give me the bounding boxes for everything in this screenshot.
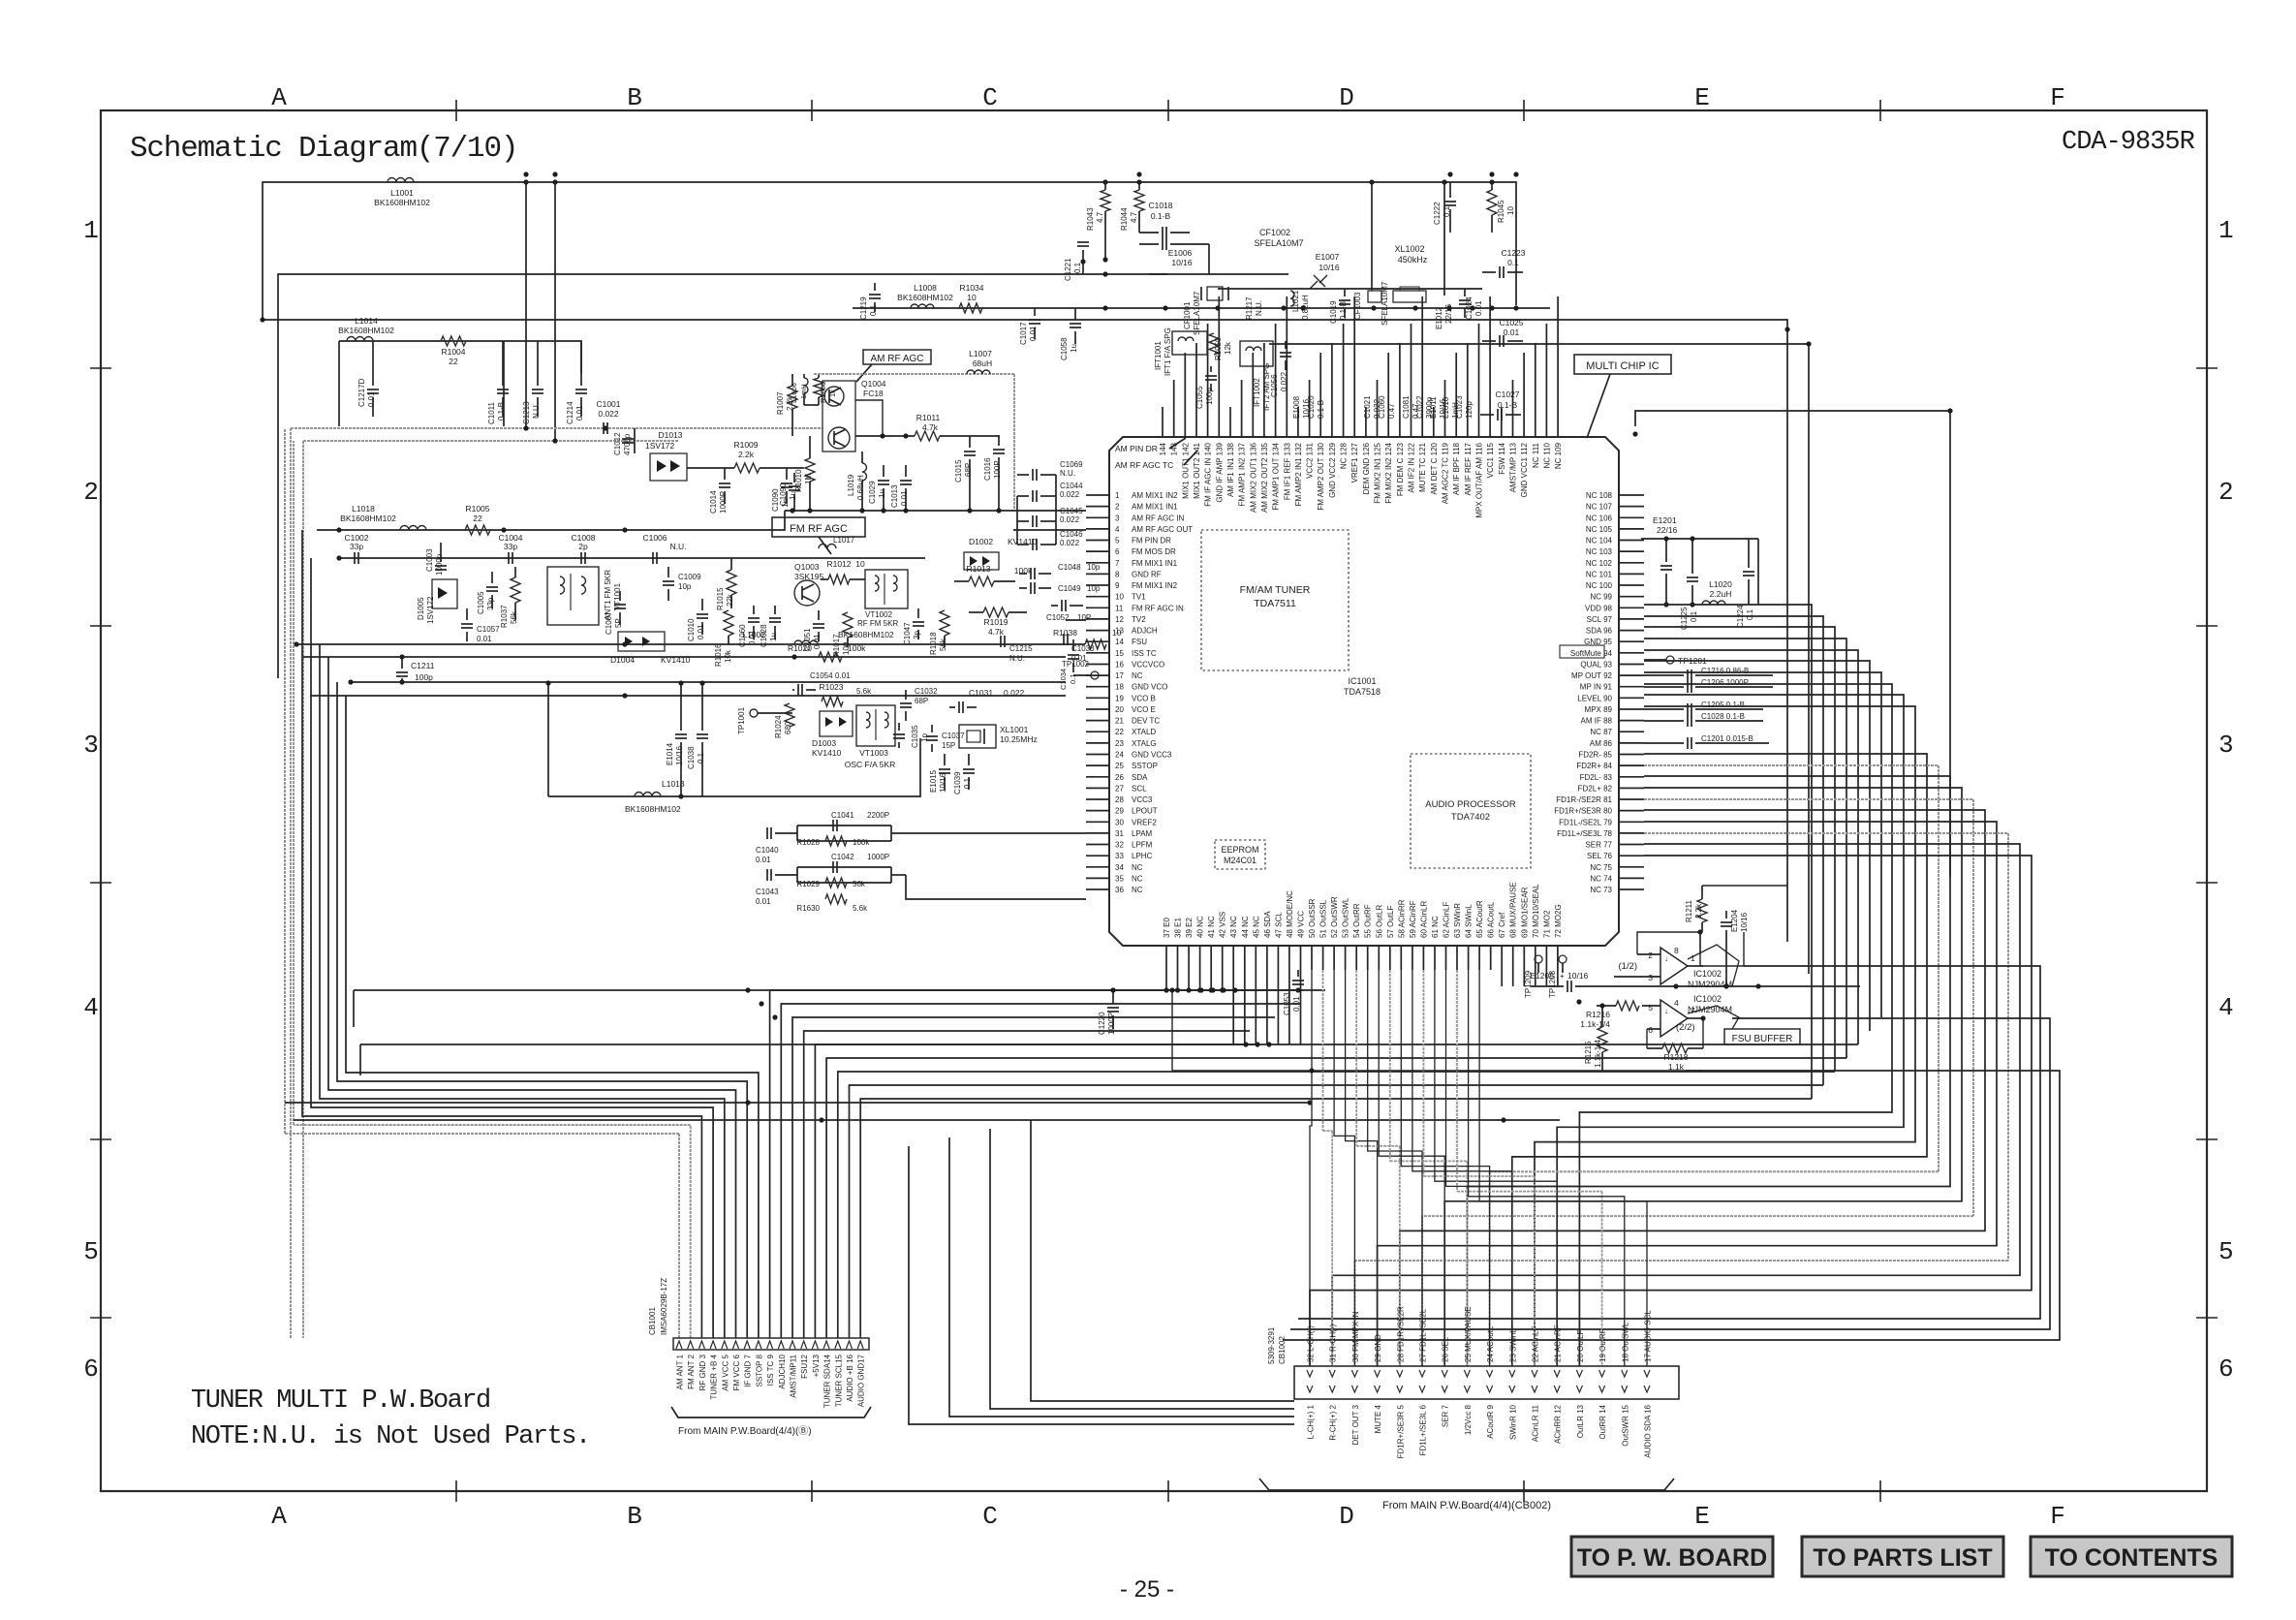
svg-text:C1040: C1040 <box>756 846 779 855</box>
svg-text:0.01: 0.01 <box>1292 996 1301 1012</box>
svg-text:FSW 114: FSW 114 <box>1498 442 1506 474</box>
capacitor C1221 <box>1082 250 1084 274</box>
svg-text:VCO E: VCO E <box>1132 705 1156 714</box>
svg-text:GND RF: GND RF <box>1132 570 1162 578</box>
capacitor C1031 <box>958 701 960 713</box>
svg-text:XL1001: XL1001 <box>1000 725 1029 734</box>
svg-text:N.U.: N.U. <box>1255 300 1263 316</box>
resistor R1015 <box>727 570 736 595</box>
svg-text:17: 17 <box>1115 671 1124 680</box>
svg-text:E: E <box>1694 1502 1710 1531</box>
svg-text:64 SWinL: 64 SWinL <box>1465 904 1474 938</box>
svg-text:0.01: 0.01 <box>367 391 376 407</box>
svg-text:32: 32 <box>1115 841 1124 850</box>
svg-text:LPAM: LPAM <box>1132 829 1153 838</box>
svg-text:CB1001: CB1001 <box>648 1307 657 1335</box>
svg-text:R1013: R1013 <box>966 564 990 574</box>
svg-text:FD1R+/SE3R 5: FD1R+/SE3R 5 <box>1396 1404 1405 1458</box>
svg-text:TO CONTENTS: TO CONTENTS <box>2045 1544 2218 1572</box>
svg-text:AM RF AGC: AM RF AGC <box>870 354 923 364</box>
svg-text:N.U.: N.U. <box>1009 654 1025 663</box>
capacitor C1029 <box>883 465 884 477</box>
svg-text:4: 4 <box>2218 993 2234 1022</box>
svg-text:From MAIN P.W.Board(4/4)(Ⓑ): From MAIN P.W.Board(4/4)(Ⓑ) <box>678 1425 812 1437</box>
svg-text:1u: 1u <box>769 633 778 641</box>
svg-text:QUAL 93: QUAL 93 <box>1580 661 1612 670</box>
svg-text:33p: 33p <box>350 542 363 551</box>
wire rail y298 <box>1218 288 1482 290</box>
wire rail 3b <box>1269 344 1809 974</box>
svg-text:C1221: C1221 <box>1064 258 1072 281</box>
svg-text:7: 7 <box>1115 559 1120 568</box>
svg-text:C1054: C1054 <box>810 671 833 680</box>
svg-text:FD1R+/SE3R 80: FD1R+/SE3R 80 <box>1554 807 1612 816</box>
inductor L1014 <box>347 337 373 342</box>
svg-text:L1021: L1021 <box>1291 290 1300 312</box>
svg-text:NC 100: NC 100 <box>1586 581 1613 590</box>
inductor L1013 <box>635 793 661 797</box>
svg-text:C1018: C1018 <box>1148 201 1172 210</box>
svg-text:AM PIN DR: AM PIN DR <box>1115 444 1158 453</box>
inductor L1019 <box>862 463 867 481</box>
svg-text:100p: 100p <box>415 672 433 682</box>
svg-text:0.1-B: 0.1-B <box>1498 400 1518 410</box>
svg-text:E1012: E1012 <box>1435 306 1443 329</box>
svg-text:E1014: E1014 <box>666 742 674 765</box>
svg-text:39 E2: 39 E2 <box>1185 918 1194 938</box>
svg-text:5309-3291: 5309-3291 <box>1267 1326 1276 1364</box>
AUDIO PROCESSOR TDA7402 block <box>1411 754 1531 868</box>
capacitor rails C1216 C1206 C1205 C1028 C1201 <box>1644 674 1684 676</box>
capacitor C1220 <box>1112 990 1114 1004</box>
svg-text:FM IF1 REF 133: FM IF1 REF 133 <box>1283 442 1291 500</box>
svg-text:MUTE 4: MUTE 4 <box>1374 1404 1382 1433</box>
svg-text:D1002: D1002 <box>969 537 993 546</box>
svg-text:L1017: L1017 <box>833 536 855 545</box>
svg-text:FM AMP2 OUT 130: FM AMP2 OUT 130 <box>1317 442 1325 510</box>
svg-text:R1029: R1029 <box>796 880 820 888</box>
svg-text:R1007: R1007 <box>776 391 785 415</box>
svg-text:NC 111: NC 111 <box>1532 442 1540 467</box>
svg-text:53 OutSWL: 53 OutSWL <box>1342 897 1350 938</box>
svg-text:68 MUX/PAUSE: 68 MUX/PAUSE <box>1509 882 1518 938</box>
capacitor C1013 <box>905 465 907 477</box>
svg-text:61 NC: 61 NC <box>1431 916 1440 938</box>
svg-text:R1011: R1011 <box>916 413 941 422</box>
wire rail 3 <box>263 320 1787 942</box>
svg-text:RF GND 3: RF GND 3 <box>698 1354 707 1390</box>
test points TP1209 TP1208 <box>1535 955 1542 963</box>
svg-text:C1219: C1219 <box>859 296 868 320</box>
svg-text:2p: 2p <box>578 542 588 551</box>
svg-text:30 FM MPX IN: 30 FM MPX IN <box>1351 1311 1360 1362</box>
svg-text:GND IF AMP 139: GND IF AMP 139 <box>1215 442 1224 502</box>
svg-text:0.022: 0.022 <box>1060 490 1080 499</box>
capacitor C1027 <box>1480 414 1494 416</box>
op2 wing <box>1688 1006 1739 1029</box>
svg-text:C1031: C1031 <box>969 688 993 698</box>
svg-text:3p: 3p <box>913 631 921 639</box>
svg-text:FM MOS DR: FM MOS DR <box>1132 547 1176 556</box>
svg-text:VREF2: VREF2 <box>1132 818 1157 826</box>
resistor R1019b rail stub <box>1066 619 1086 621</box>
svg-text:SCL 97: SCL 97 <box>1587 615 1613 624</box>
svg-text:FM MIX2 IN2 124: FM MIX2 IN2 124 <box>1384 442 1393 503</box>
capacitor C1222 <box>1449 182 1451 198</box>
svg-text:C1011: C1011 <box>487 401 496 424</box>
transformer VT1003 <box>845 705 895 769</box>
svg-text:MUTE TC 121: MUTE TC 121 <box>1418 442 1427 492</box>
svg-text:100k: 100k <box>848 643 866 653</box>
inductor L1017 <box>819 545 836 549</box>
svg-text:32 L-CH(-): 32 L-CH(-) <box>1307 1325 1316 1362</box>
svg-text:0.1: 0.1 <box>1443 205 1451 217</box>
svg-text:C1010: C1010 <box>687 618 696 641</box>
svg-text:10p: 10p <box>1087 584 1101 593</box>
resistor R1043 <box>1101 190 1110 211</box>
svg-text:144: 144 <box>1159 442 1167 455</box>
svg-text:CDA-9835R: CDA-9835R <box>2062 128 2195 157</box>
resistor R1013 <box>954 580 969 582</box>
svg-text:C1028 0.1-B: C1028 0.1-B <box>1701 712 1745 721</box>
svg-text:VREF1 127: VREF1 127 <box>1350 442 1359 483</box>
capacitor E1201 <box>1665 539 1667 562</box>
svg-text:680: 680 <box>784 721 792 734</box>
inductor L1007 <box>967 370 990 374</box>
svg-text:C1020: C1020 <box>1307 395 1316 419</box>
diode D1013 <box>650 430 687 481</box>
svg-text:ACinRR 12: ACinRR 12 <box>1554 1404 1563 1444</box>
svg-text:2.2uH: 2.2uH <box>1710 589 1732 599</box>
feedback network C1042 C1043 R1029 R1630 <box>756 853 1086 913</box>
svg-text:C1009: C1009 <box>678 573 701 581</box>
svg-text:NJM2904M: NJM2904M <box>1688 1005 1732 1014</box>
svg-text:AM IF REF 117: AM IF REF 117 <box>1464 442 1473 495</box>
svg-text:AUDIO PROCESSOR: AUDIO PROCESSOR <box>1425 799 1516 810</box>
svg-text:17 AUDIO SCL: 17 AUDIO SCL <box>1644 1310 1653 1362</box>
svg-text:TDA7511: TDA7511 <box>1254 598 1296 609</box>
wire rail y704 <box>351 681 1066 683</box>
svg-text:24: 24 <box>1115 751 1124 760</box>
capacitor C1004 <box>508 552 510 564</box>
svg-text:2200P: 2200P <box>867 811 889 820</box>
svg-text:TP1002: TP1002 <box>1062 660 1090 669</box>
svg-text:AM MIX2 OUT2 135: AM MIX2 OUT2 135 <box>1260 442 1269 513</box>
svg-text:FSU BUFFER: FSU BUFFER <box>1732 1034 1793 1044</box>
wire rail y665 <box>296 643 1066 645</box>
svg-text:NC 99: NC 99 <box>1590 593 1612 602</box>
wire cap rail <box>339 557 925 559</box>
svg-text:23: 23 <box>1115 739 1124 748</box>
svg-text:FM MIX1 IN1: FM MIX1 IN1 <box>1132 559 1178 568</box>
resistor R1011 <box>855 435 915 437</box>
svg-text:5: 5 <box>1115 537 1120 545</box>
svg-text:57 OutLF: 57 OutLF <box>1386 906 1395 938</box>
svg-text:NC 75: NC 75 <box>1590 863 1612 872</box>
capacitor C1213 <box>537 341 539 386</box>
svg-text:1: 1 <box>1691 953 1695 963</box>
junction dots <box>523 171 528 176</box>
svg-text:R1016: R1016 <box>714 643 723 667</box>
svg-text:D1004: D1004 <box>610 655 635 665</box>
svg-text:MP IN 91: MP IN 91 <box>1580 683 1613 692</box>
svg-text:R1218: R1218 <box>1663 1052 1688 1062</box>
svg-text:NC 74: NC 74 <box>1590 874 1612 883</box>
svg-text:C1032: C1032 <box>915 687 938 696</box>
svg-text:C1015: C1015 <box>954 459 963 483</box>
svg-text:15P: 15P <box>942 741 955 750</box>
svg-text:1000P: 1000P <box>867 853 889 861</box>
IC1001 bottom pins 37-72 <box>1163 882 1563 970</box>
svg-text:FSU: FSU <box>1132 638 1147 646</box>
svg-text:C1003: C1003 <box>425 548 434 572</box>
svg-text:R1044: R1044 <box>1120 207 1129 231</box>
svg-text:R-CH(+) 2: R-CH(+) 2 <box>1329 1404 1338 1440</box>
capacitor C1049 <box>1019 587 1027 589</box>
capacitor C1060 <box>753 606 755 614</box>
svg-text:C1056: C1056 <box>1270 374 1279 397</box>
capacitor C1017 <box>1034 308 1036 316</box>
wire screened AM line <box>291 427 822 429</box>
svg-text:10/16: 10/16 <box>1319 263 1340 272</box>
box label FSU BUFFER <box>1724 1029 1800 1044</box>
top pin forest verticals <box>1162 407 1164 412</box>
svg-text:1: 1 <box>1115 491 1120 500</box>
transformer IFT1002 <box>1240 341 1273 411</box>
svg-text:16: 16 <box>1115 661 1124 670</box>
svg-text:NC 109: NC 109 <box>1554 442 1563 469</box>
resistor R1050 <box>1209 333 1219 355</box>
svg-text:R1024: R1024 <box>774 715 783 738</box>
svg-text:C1006: C1006 <box>642 533 667 543</box>
transistor Q1004 <box>822 379 886 452</box>
svg-text:LEVEL 90: LEVEL 90 <box>1577 694 1612 702</box>
svg-text:L-CH(+) 1: L-CH(+) 1 <box>1307 1404 1316 1439</box>
capacitor E1204 <box>1725 911 1727 919</box>
svg-text:C1223: C1223 <box>1501 248 1525 258</box>
svg-text:IFT1002: IFT1002 <box>1253 378 1261 407</box>
multi chip IC IC1001 outline <box>1109 437 1619 946</box>
svg-text:31 R-CH(-): 31 R-CH(-) <box>1329 1324 1338 1362</box>
svg-text:FM/AM TUNER: FM/AM TUNER <box>1240 584 1311 596</box>
svg-text:10.25MHz: 10.25MHz <box>1000 734 1038 744</box>
IC1001 top pins 144-109 <box>1159 412 1563 518</box>
svg-text:KV1410: KV1410 <box>661 655 691 665</box>
svg-text:R1010: R1010 <box>794 469 803 492</box>
svg-text:IF GND 7: IF GND 7 <box>744 1354 753 1386</box>
capacitor C1003 <box>440 543 442 562</box>
svg-text:TV1: TV1 <box>1132 593 1146 602</box>
svg-text:ACinLR 11: ACinLR 11 <box>1532 1404 1540 1442</box>
svg-text:TUNER MULTI P.W.Board: TUNER MULTI P.W.Board <box>191 1386 490 1416</box>
svg-text:LPOUT: LPOUT <box>1132 807 1158 816</box>
svg-text:FD1R-/SE2R 81: FD1R-/SE2R 81 <box>1556 795 1612 804</box>
svg-text:CF1002: CF1002 <box>1259 228 1290 237</box>
svg-text:C1213: C1213 <box>522 401 531 424</box>
svg-text:10p: 10p <box>1087 563 1101 572</box>
wire top rail 1 <box>263 182 1516 320</box>
svg-text:C1046: C1046 <box>1060 530 1083 539</box>
svg-text:FC18: FC18 <box>863 389 884 398</box>
capacitor C1055 <box>1210 366 1212 372</box>
capacitor C1014 <box>724 468 726 480</box>
svg-text:5.6k: 5.6k <box>853 904 868 913</box>
inductor L1021 <box>1290 291 1294 306</box>
svg-text:27: 27 <box>1115 784 1124 793</box>
svg-text:R1028: R1028 <box>796 838 820 847</box>
svg-text:NC 104: NC 104 <box>1586 537 1613 545</box>
svg-text:2: 2 <box>1115 503 1120 512</box>
wire E1201 cluster rail <box>1641 538 1758 540</box>
inductor L1020 <box>1702 601 1725 605</box>
svg-text:AM DET C 120: AM DET C 120 <box>1430 442 1439 494</box>
svg-text:1.1k-1/4: 1.1k-1/4 <box>1580 1019 1610 1029</box>
svg-text:2: 2 <box>1648 950 1653 960</box>
svg-text:BK1608HM102: BK1608HM102 <box>897 293 953 302</box>
svg-text:68P: 68P <box>915 697 928 705</box>
svg-text:0.1: 0.1 <box>1507 258 1519 267</box>
svg-text:1SV172: 1SV172 <box>645 441 675 451</box>
svg-text:0.1-B: 0.1-B <box>1317 400 1325 419</box>
capacitor C1223 <box>1482 271 1496 273</box>
svg-text:R1023: R1023 <box>819 682 843 692</box>
svg-text:IFT1001: IFT1001 <box>1154 341 1163 370</box>
capacitor C1011 <box>502 341 504 386</box>
svg-text:FD1L+/SE3L 6: FD1L+/SE3L 6 <box>1419 1404 1428 1455</box>
svg-text:SER 77: SER 77 <box>1585 841 1612 850</box>
EEPROM M24C01 block <box>1215 840 1265 869</box>
capacitor C1001 <box>603 422 605 434</box>
capacitor E1014 <box>680 683 682 731</box>
svg-text:100P: 100P <box>993 460 1002 479</box>
capacitor C1217D <box>372 341 374 386</box>
svg-text:120p: 120p <box>1465 401 1474 419</box>
svg-text:22 ACinLF: 22 ACinLF <box>1532 1326 1540 1362</box>
diode D1002 <box>964 537 1038 570</box>
svg-text:FM IF AGC IN 140: FM IF AGC IN 140 <box>1204 442 1213 506</box>
svg-text:E1204: E1204 <box>1730 909 1739 932</box>
svg-text:0.022: 0.022 <box>1004 688 1025 698</box>
svg-text:FM RF AGC IN: FM RF AGC IN <box>1132 604 1184 612</box>
svg-text:70 MO10/SEAL: 70 MO10/SEAL <box>1532 884 1540 938</box>
svg-text:50 OutSSR: 50 OutSSR <box>1308 898 1317 938</box>
svg-text:NC 106: NC 106 <box>1586 514 1613 522</box>
test point TP1001 <box>750 709 758 717</box>
capacitor C1019 <box>1344 289 1346 296</box>
capacitor E1006 <box>1139 243 1159 245</box>
svg-text:65 ACoutR: 65 ACoutR <box>1475 900 1484 938</box>
capacitor C1214 <box>580 341 582 386</box>
svg-text:R1037: R1037 <box>500 605 509 628</box>
svg-text:5: 5 <box>83 1237 99 1266</box>
SoftMute pin 94 box <box>1560 645 1604 658</box>
svg-text:TUNER SCL15: TUNER SCL15 <box>834 1354 843 1407</box>
capacitor C1044 C1045 C1046 column <box>1017 474 1029 476</box>
svg-text:ADJCH10: ADJCH10 <box>778 1354 787 1388</box>
svg-text:AM MIX2 OUT1 136: AM MIX2 OUT1 136 <box>1249 442 1257 513</box>
svg-text:C1023: C1023 <box>1455 395 1464 419</box>
svg-text:XTALG: XTALG <box>1132 739 1157 748</box>
test point TP1201 <box>1666 656 1674 664</box>
svg-text:R1019: R1019 <box>983 617 1008 627</box>
svg-text:46 SDA: 46 SDA <box>1263 911 1272 938</box>
svg-text:41 NC: 41 NC <box>1207 916 1216 938</box>
svg-text:3SK195: 3SK195 <box>794 572 824 581</box>
svg-text:FD2R- 85: FD2R- 85 <box>1578 751 1612 760</box>
svg-text:BK1608HM102: BK1608HM102 <box>374 198 430 207</box>
svg-text:C1201 0.015-B: C1201 0.015-B <box>1701 734 1753 743</box>
svg-text:SFELA10M7: SFELA10M7 <box>1193 291 1201 335</box>
resistor R1211 <box>1697 899 1707 922</box>
svg-text:0.01: 0.01 <box>575 405 584 421</box>
svg-text:AM IF BPF 118: AM IF BPF 118 <box>1452 442 1461 495</box>
svg-text:0.47: 0.47 <box>1387 403 1396 419</box>
svg-text:C1041: C1041 <box>831 811 854 820</box>
svg-text:2: 2 <box>2218 478 2234 507</box>
svg-text:C1216 0.86-B: C1216 0.86-B <box>1701 667 1749 675</box>
svg-text:C: C <box>982 1502 998 1531</box>
svg-text:AM MIX1 IN1: AM MIX1 IN1 <box>1132 503 1178 512</box>
capacitor C1009 <box>667 567 669 577</box>
resistor R1004 <box>441 336 466 346</box>
svg-text:SoftMute 94: SoftMute 94 <box>1570 649 1613 658</box>
svg-text:36: 36 <box>1115 886 1124 894</box>
svg-text:10/16: 10/16 <box>1567 971 1589 981</box>
svg-text:Q1004: Q1004 <box>861 379 886 389</box>
central descenders <box>909 1146 1294 1424</box>
svg-text:F: F <box>2050 1502 2065 1531</box>
wire loop top right <box>1635 411 1950 877</box>
button TO PARTS LIST <box>1802 1537 2003 1576</box>
wire front-end rail L1018 <box>317 511 785 530</box>
svg-text:L1010: L1010 <box>1442 396 1450 419</box>
resistor R1044 <box>1134 190 1144 211</box>
svg-text:55 OutRF: 55 OutRF <box>1364 904 1373 938</box>
svg-text:1SV172: 1SV172 <box>426 596 435 624</box>
svg-text:N.U.: N.U. <box>1060 469 1075 478</box>
capacitor C1039 <box>968 754 970 765</box>
svg-text:CF1003: CF1003 <box>1353 292 1362 320</box>
svg-text:31: 31 <box>1115 829 1124 838</box>
svg-text:VT1002: VT1002 <box>865 610 893 619</box>
svg-text:C1017: C1017 <box>1019 322 1028 345</box>
transformer IFT1001 <box>1154 327 1207 376</box>
svg-text:22/16: 22/16 <box>1657 525 1678 535</box>
capacitor C1010 <box>701 599 703 610</box>
svg-text:VCC3: VCC3 <box>1132 795 1153 804</box>
svg-text:56 OutLR: 56 OutLR <box>1375 905 1383 938</box>
capacitor C1056 <box>1285 341 1287 349</box>
svg-text:R1020: R1020 <box>788 643 812 653</box>
bottom rail 2 <box>360 1044 1259 1045</box>
svg-text:AM IF 88: AM IF 88 <box>1581 717 1613 726</box>
button TO CONTENTS <box>2031 1537 2232 1576</box>
svg-text:E1007: E1007 <box>1316 252 1340 262</box>
capacitor E1015 <box>944 754 946 765</box>
capacitor C1025 <box>1482 340 1496 342</box>
svg-text:R1015: R1015 <box>716 587 725 610</box>
svg-text:B: B <box>627 1502 642 1531</box>
svg-text:SFELA10M7: SFELA10M7 <box>1254 238 1303 248</box>
svg-text:R1038: R1038 <box>1053 628 1077 638</box>
grid row tick marks <box>90 367 111 369</box>
resistor R1023 <box>822 697 843 706</box>
box label FM RF AGC <box>772 517 865 554</box>
feedback network C1040 C1041 R1028 <box>756 811 1086 864</box>
capacitor C1219 <box>874 283 876 291</box>
svg-text:19: 19 <box>1115 694 1124 702</box>
svg-text:63 SWinR: 63 SWinR <box>1453 903 1462 938</box>
